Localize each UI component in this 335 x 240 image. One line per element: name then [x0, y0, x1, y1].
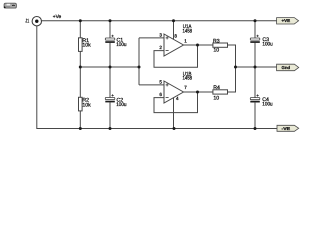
- svg-text:8: 8: [174, 33, 177, 38]
- svg-text:10: 10: [213, 95, 219, 101]
- svg-text:10k: 10k: [82, 43, 91, 49]
- svg-text:1458: 1458: [183, 75, 193, 81]
- svg-text:100u: 100u: [262, 42, 272, 48]
- svg-text:7: 7: [184, 85, 187, 90]
- svg-text:-VE: -VE: [282, 126, 291, 131]
- svg-text:100u: 100u: [262, 102, 272, 108]
- svg-text:10k: 10k: [82, 102, 91, 108]
- svg-text:1458: 1458: [183, 29, 193, 35]
- svg-text:Gnd: Gnd: [282, 65, 291, 70]
- svg-text:10: 10: [213, 47, 219, 53]
- svg-text:4: 4: [176, 96, 179, 101]
- svg-text:2: 2: [159, 45, 162, 50]
- svg-text:100u: 100u: [116, 42, 126, 48]
- svg-text:J1: J1: [25, 18, 29, 24]
- svg-text:6: 6: [159, 92, 162, 97]
- svg-text:3: 3: [159, 33, 162, 38]
- svg-text:R4: R4: [213, 85, 220, 91]
- svg-text:100u: 100u: [116, 102, 126, 108]
- svg-text:1: 1: [184, 39, 187, 44]
- svg-text:R3: R3: [213, 38, 220, 44]
- svg-text:+Ve: +Ve: [53, 14, 62, 20]
- svg-text:5: 5: [159, 79, 162, 84]
- svg-text:+VE: +VE: [282, 18, 291, 23]
